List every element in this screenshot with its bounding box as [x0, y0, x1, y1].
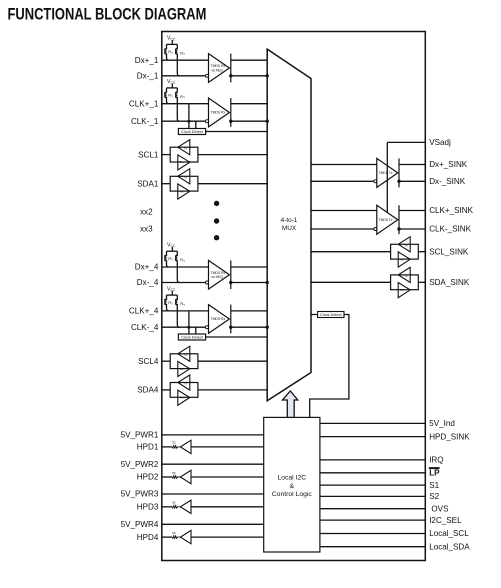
wire S2: [320, 495, 425, 497]
wire HPD3 pin: [162, 506, 172, 508]
svg-text:CLK+_1: CLK+_1: [129, 99, 159, 108]
svg-text:SCL1: SCL1: [138, 150, 159, 159]
wire HPD4 to logic: [191, 536, 264, 538]
wire HPD1 pin: [162, 446, 172, 448]
svg-text:HPD4: HPD4: [137, 533, 159, 542]
wire HPD3 to logic: [191, 506, 264, 508]
wire SCL1 pin: [162, 154, 170, 156]
wire plus out ch4dx: [231, 266, 267, 268]
op-amp TMDS Tx Dx_SINK: [377, 158, 398, 187]
svg-text:Rx: Rx: [180, 367, 184, 371]
clock detect box ch1: [178, 129, 205, 135]
wire 5V_PWR4: [162, 523, 264, 525]
wire output bar ch1dx: [230, 54, 232, 83]
svg-text:Clock Detect: Clock Detect: [320, 313, 342, 317]
op-amp TMDS Tx CLK_SINK: [377, 205, 398, 234]
wire LP: [320, 472, 425, 474]
wire VSadj rail: [386, 142, 388, 213]
SDA_SINK upper buffer: [398, 267, 410, 282]
wire plus in ch1dx: [162, 59, 209, 61]
resistor Rt ch1dx minus: [176, 44, 180, 75]
svg-text:TMDS Tx: TMDS Tx: [379, 218, 393, 222]
wire Vcc stub ch4dx: [171, 247, 173, 251]
svg-text:Tx: Tx: [404, 274, 408, 278]
wire 5V_PWR2: [162, 463, 264, 465]
control bus arrow: [283, 391, 298, 417]
wire SCL1 to mux: [198, 154, 267, 156]
4-to-1 MUX U1: [267, 49, 311, 401]
svg-text:HPD_SINK: HPD_SINK: [429, 432, 470, 441]
op-amp TMDS Rx ch4clk: [209, 305, 230, 334]
wire clk- to detect ch1: [195, 121, 197, 128]
node ellipsis dot 2: [214, 218, 219, 223]
junction bar Dx_SINK minus: [397, 180, 400, 183]
wire 5V_Ind: [320, 422, 425, 424]
svg-text:5V_PWR1: 5V_PWR1: [121, 431, 159, 440]
wire minus in ch1dx: [162, 75, 206, 77]
inverting bubble Dx_SINK: [374, 180, 377, 183]
svg-text:I2C_SEL: I2C_SEL: [429, 516, 462, 525]
junction bar ch1dx minus: [229, 74, 232, 77]
SDA1 box: [170, 176, 198, 191]
wire plus out ch1clk: [231, 103, 267, 105]
wire output bar ch4clk: [230, 305, 232, 334]
svg-text:VCC: VCC: [167, 79, 176, 85]
svg-text:HPD1: HPD1: [137, 443, 159, 452]
svg-text:FUNCTIONAL BLOCK DIAGRAM: FUNCTIONAL BLOCK DIAGRAM: [8, 6, 207, 24]
node ellipsis dot 3: [214, 235, 219, 240]
resistor 50ohm HPD2: [172, 476, 180, 479]
svg-text:Dx+_1: Dx+_1: [135, 56, 159, 65]
junction clk- crossing ch4: [187, 326, 190, 329]
wire HPD_SINK: [320, 436, 425, 438]
svg-text:50: 50: [172, 471, 176, 475]
wire SDA4 pin: [162, 389, 170, 391]
buffer HPD4: [180, 530, 191, 543]
buffer HPD1: [180, 440, 191, 453]
wire plus out ch1dx: [231, 59, 267, 61]
wire HPD2 pin: [162, 476, 172, 478]
svg-text:SDA_SINK: SDA_SINK: [429, 278, 470, 287]
svg-text:Tx: Tx: [184, 353, 188, 357]
svg-text:Rx: Rx: [180, 189, 184, 193]
wire minus out ch1clk: [231, 120, 267, 122]
wire minus out ch4dx: [231, 282, 267, 284]
junction bar ch4clk minus: [229, 326, 232, 329]
svg-text:50: 50: [172, 441, 176, 445]
svg-text:CLK-_4: CLK-_4: [131, 323, 159, 332]
wire SDA1 pin: [162, 183, 170, 185]
SCL_SINK box: [391, 244, 419, 259]
wire OVS: [320, 508, 425, 510]
inverting bubble CLK_SINK: [374, 228, 377, 231]
resistor Rt ch4dx minus: [176, 251, 180, 282]
resistor 50ohm HPD1: [172, 446, 180, 449]
junction mux edge ch4dx minus: [266, 281, 269, 284]
junction mux edge ch1clk minus: [266, 120, 269, 123]
SCL4 box: [170, 354, 198, 369]
wire Dx_SINK plus from mux: [311, 164, 377, 166]
SCL1 upper buffer: [178, 140, 190, 155]
SDA_SINK lower buffer: [398, 283, 410, 298]
wire CLK_SINK plus pin: [399, 210, 425, 212]
junction mux edge ch4clk minus: [266, 326, 269, 329]
svg-text:SCL_SINK: SCL_SINK: [429, 247, 469, 256]
svg-text:Tx: Tx: [184, 175, 188, 179]
wire detect out ch4: [206, 336, 268, 338]
svg-text:CLK+_4: CLK+_4: [129, 307, 159, 316]
svg-text:Tx: Tx: [184, 382, 188, 386]
svg-text:4-to-1: 4-to-1: [281, 217, 298, 224]
wire Dx_SINK minus pin: [399, 180, 425, 182]
clock detect box ch4: [178, 334, 205, 340]
svg-text:Dx-_4: Dx-_4: [137, 278, 159, 287]
svg-text:Control Logic: Control Logic: [272, 491, 313, 498]
wire minus in ch4clk: [162, 326, 206, 328]
wire Vcc bar ch1clk: [167, 87, 178, 89]
block Local I2C and Control Logic U2: [264, 417, 320, 552]
wire CLK_SINK minus from mux: [311, 228, 374, 230]
clock detect box sink: [318, 312, 344, 318]
svg-text:Clock Detect: Clock Detect: [181, 130, 203, 134]
resistor Rt ch4dx plus: [165, 251, 169, 267]
svg-text:w/ AEQ: w/ AEQ: [212, 68, 224, 72]
svg-text:CLK-_SINK: CLK-_SINK: [429, 225, 471, 234]
wire HPD1 to logic: [191, 446, 264, 448]
node ellipsis dot 1: [214, 201, 219, 206]
resistor Rt ch1clk minus: [176, 88, 180, 121]
buffer HPD3: [180, 500, 191, 513]
op-amp TMDS Rx ch4dx w/AEQ: [209, 260, 230, 289]
svg-text:w/ AEQ: w/ AEQ: [212, 275, 224, 279]
svg-text:VCC: VCC: [167, 286, 176, 292]
wire VSadj pin: [387, 141, 425, 143]
svg-text:Local_SDA: Local_SDA: [429, 542, 470, 551]
svg-text:SDA1: SDA1: [137, 179, 159, 188]
wire Local_SDA: [320, 546, 425, 548]
wire SDA4 to mux: [198, 389, 267, 391]
svg-text:5V_Ind: 5V_Ind: [429, 419, 455, 428]
svg-text:Rx: Rx: [400, 257, 404, 261]
svg-text:CLK+_SINK: CLK+_SINK: [429, 206, 473, 215]
wire Dx_SINK plus pin: [399, 164, 425, 166]
wire 5V_PWR1: [162, 434, 264, 436]
SDA4 upper buffer: [178, 375, 190, 390]
wire minus in ch4dx: [162, 282, 206, 284]
wire SCL4 pin: [162, 360, 170, 362]
svg-text:Tx: Tx: [404, 243, 408, 247]
svg-text:5V_PWR3: 5V_PWR3: [121, 490, 159, 499]
svg-text:TMDS Tx: TMDS Tx: [379, 171, 393, 175]
inverting input bubble ch4dx: [206, 281, 209, 284]
wire SDA_SINK pin: [418, 281, 425, 283]
wire Dx_SINK minus from mux: [311, 180, 374, 182]
wire clk- to detect ch4: [195, 327, 197, 334]
wire mux to sink detect: [311, 314, 318, 316]
junction mux edge ch1dx minus: [266, 74, 269, 77]
svg-text:Local_SCL: Local_SCL: [429, 529, 469, 538]
SDA4 lower buffer: [178, 390, 190, 405]
svg-text:VSadj: VSadj: [429, 138, 451, 147]
svg-text:TMDS Rx: TMDS Rx: [211, 317, 226, 321]
svg-text:OVS: OVS: [431, 504, 449, 513]
SCL_SINK lower buffer: [398, 252, 410, 267]
SCL_SINK upper buffer: [398, 237, 410, 252]
wire plus in ch4dx: [162, 266, 209, 268]
wire output bar CLK_SINK: [398, 205, 400, 234]
svg-text:Rx: Rx: [180, 160, 184, 164]
wire HPD2 to logic: [191, 476, 264, 478]
wire Vcc bar ch4clk: [167, 294, 178, 296]
SCL4 lower buffer: [178, 361, 190, 376]
junction bar ch4dx minus: [229, 281, 232, 284]
wire Vcc bar ch1dx: [167, 43, 178, 45]
op-amp TMDS Rx ch1clk: [209, 98, 230, 127]
wire Local_SCL: [320, 533, 425, 535]
wire CLK_SINK plus from mux: [311, 210, 377, 212]
svg-text:Rx: Rx: [400, 288, 404, 292]
resistor 50ohm HPD3: [172, 506, 180, 509]
wire SCL_SINK pin: [418, 251, 425, 253]
SDA_SINK box: [391, 275, 419, 290]
wire output bar ch1clk: [230, 98, 232, 127]
svg-text:Dx-_1: Dx-_1: [137, 72, 159, 81]
wire Vcc stub ch1dx: [171, 40, 173, 44]
svg-text:SDA4: SDA4: [137, 386, 159, 395]
svg-text:CLK-_1: CLK-_1: [131, 117, 159, 126]
wire S1: [320, 484, 425, 486]
inverting input bubble ch4clk: [206, 326, 209, 329]
buffer HPD2: [180, 470, 191, 483]
svg-text:Rx: Rx: [180, 396, 184, 400]
SDA4 box: [170, 383, 198, 398]
wire CLK_SINK minus pin: [399, 228, 425, 230]
wire minus in ch1clk: [162, 120, 206, 122]
svg-text:Clock Detect: Clock Detect: [181, 336, 203, 340]
wire 5V_PWR3: [162, 493, 264, 495]
resistor 50ohm HPD4: [172, 536, 180, 539]
wire Vcc stub ch1clk: [171, 84, 173, 88]
svg-text:IRQ: IRQ: [429, 456, 443, 465]
wire IRQ: [320, 459, 425, 461]
wire output bar ch4dx: [230, 260, 232, 289]
svg-text:xx3: xx3: [140, 225, 153, 234]
svg-text:Dx-_SINK: Dx-_SINK: [429, 177, 466, 186]
wire I2C_SEL: [320, 519, 425, 521]
resistor Rt ch4clk minus: [176, 295, 180, 327]
wire output bar Dx_SINK: [398, 158, 400, 187]
wire SCL4 to mux: [198, 360, 267, 362]
svg-text:VCC: VCC: [167, 242, 176, 248]
inverting input bubble ch1clk: [206, 120, 209, 123]
SDA1 lower buffer: [178, 184, 190, 199]
svg-text:LP: LP: [429, 469, 440, 478]
wire plus in ch1clk: [162, 103, 209, 105]
SCL1 lower buffer: [178, 155, 190, 170]
svg-text:HPD3: HPD3: [137, 503, 159, 512]
wire plus out ch4clk: [231, 310, 267, 312]
op-amp TMDS Rx ch1dx w/AEQ: [209, 54, 230, 83]
wire sink detect to logic: [310, 315, 349, 418]
junction clk- crossing ch1: [187, 120, 190, 123]
wire Vcc bar ch4dx: [167, 250, 178, 252]
svg-text:&: &: [290, 483, 295, 490]
wire clk+ to detect ch4: [188, 311, 190, 334]
resistor Rt ch4clk plus: [165, 295, 169, 311]
wire clk+ to detect ch1: [188, 104, 190, 129]
wire detect out ch1: [206, 131, 268, 133]
svg-text:S2: S2: [429, 492, 439, 501]
svg-text:5V_PWR4: 5V_PWR4: [121, 520, 159, 529]
svg-text:50: 50: [172, 501, 176, 505]
svg-text:5V_PWR2: 5V_PWR2: [121, 460, 159, 469]
svg-text:Dx+_4: Dx+_4: [135, 263, 159, 272]
inverting input bubble ch1dx: [206, 74, 209, 77]
chip boundary: [162, 32, 426, 561]
SCL1 box: [170, 147, 198, 162]
wire plus in ch4clk: [162, 310, 209, 312]
svg-text:HPD2: HPD2: [137, 473, 159, 482]
wire SDA1 to mux: [198, 183, 267, 185]
svg-text:VCC: VCC: [167, 36, 176, 42]
svg-text:xx2: xx2: [140, 208, 153, 217]
resistor Rt ch1clk plus: [165, 88, 169, 104]
wire HPD4 pin: [162, 536, 172, 538]
wire minus out ch4clk: [231, 326, 267, 328]
junction bar ch1clk minus: [229, 120, 232, 123]
wire Vcc stub ch4clk: [171, 291, 173, 295]
svg-text:TMDS Rx: TMDS Rx: [211, 111, 226, 115]
wire SCL_SINK from mux: [311, 251, 391, 253]
wire minus out ch1dx: [231, 75, 267, 77]
svg-text:Tx: Tx: [184, 146, 188, 150]
SCL4 upper buffer: [178, 346, 190, 361]
svg-text:SCL4: SCL4: [138, 357, 159, 366]
wire SDA_SINK from mux: [311, 281, 391, 283]
resistor Rt ch1dx plus: [165, 44, 169, 60]
svg-text:Local I2C: Local I2C: [277, 474, 306, 481]
svg-text:S1: S1: [429, 481, 439, 490]
junction bar CLK_SINK minus: [397, 227, 400, 230]
svg-text:50: 50: [172, 531, 176, 535]
SDA1 upper buffer: [178, 169, 190, 184]
svg-text:MUX: MUX: [282, 225, 297, 232]
svg-text:Dx+_SINK: Dx+_SINK: [429, 160, 468, 169]
